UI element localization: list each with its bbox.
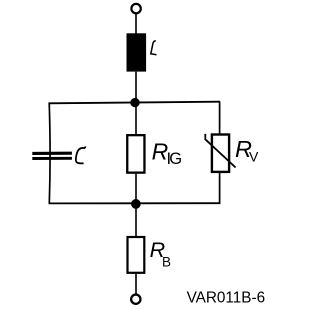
svg-text:B: B (162, 255, 171, 270)
svg-text:G: G (169, 150, 182, 168)
svg-text:V: V (249, 149, 259, 165)
svg-text:VAR011B-6: VAR011B-6 (187, 289, 266, 306)
